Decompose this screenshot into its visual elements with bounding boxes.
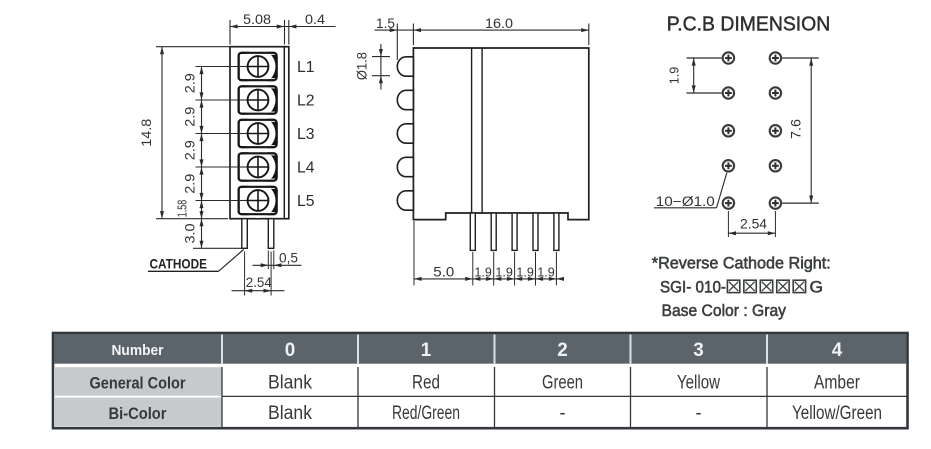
svg-text:10−Ø1.0: 10−Ø1.0 [656, 194, 715, 209]
svg-text:1.9: 1.9 [495, 265, 513, 279]
svg-text:P.C.B DIMENSION: P.C.B DIMENSION [667, 13, 831, 36]
svg-text:L2: L2 [297, 93, 315, 110]
svg-text:0.4: 0.4 [305, 12, 326, 27]
svg-text:3.0: 3.0 [183, 224, 198, 244]
svg-text:1.9: 1.9 [474, 265, 492, 279]
svg-text:0,5: 0,5 [279, 250, 298, 265]
svg-text:Number: Number [112, 342, 164, 359]
svg-text:SGI- 010-: SGI- 010- [660, 279, 726, 297]
svg-text:Green: Green [542, 373, 583, 394]
svg-text:2.9: 2.9 [183, 73, 198, 93]
svg-text:1.9: 1.9 [516, 265, 534, 279]
svg-text:Red/Green: Red/Green [392, 403, 460, 424]
svg-text:2.9: 2.9 [183, 140, 198, 160]
svg-text:1.9: 1.9 [668, 67, 682, 85]
svg-text:Blank: Blank [268, 403, 312, 424]
svg-text:Yellow/Green: Yellow/Green [792, 403, 882, 424]
svg-text:2.54: 2.54 [246, 275, 272, 290]
svg-text:1.5: 1.5 [376, 16, 395, 31]
svg-text:2.9: 2.9 [183, 107, 198, 127]
svg-text:Red: Red [412, 373, 440, 394]
svg-text:L5: L5 [297, 193, 315, 210]
svg-text:Amber: Amber [814, 373, 861, 394]
svg-text:2: 2 [557, 340, 568, 361]
svg-text:Base Color : Gray: Base Color : Gray [662, 302, 787, 320]
svg-text:5.08: 5.08 [243, 12, 271, 27]
svg-text:7.6: 7.6 [788, 119, 803, 139]
svg-text:1.9: 1.9 [537, 265, 555, 279]
svg-text:2.54: 2.54 [740, 217, 767, 232]
svg-text:G: G [810, 279, 824, 297]
svg-text:CATHODE: CATHODE [150, 257, 208, 272]
svg-text:4: 4 [832, 340, 843, 361]
svg-text:1: 1 [421, 340, 432, 361]
svg-text:5.0: 5.0 [433, 264, 454, 279]
svg-text:2.9: 2.9 [183, 174, 198, 194]
svg-text:Bi-Color: Bi-Color [109, 404, 167, 423]
svg-text:Blank: Blank [268, 373, 312, 394]
svg-text:L3: L3 [297, 126, 315, 143]
svg-text:Ø1.8: Ø1.8 [355, 52, 370, 80]
svg-text:-: - [560, 403, 566, 424]
svg-text:L4: L4 [297, 160, 315, 177]
svg-text:-: - [696, 403, 702, 424]
svg-text:*Reverse Cathode Right:: *Reverse Cathode Right: [652, 255, 831, 273]
svg-text:0: 0 [285, 340, 296, 361]
svg-text:14.8: 14.8 [139, 119, 154, 147]
svg-text:General Color: General Color [90, 374, 186, 393]
svg-text:L1: L1 [297, 59, 315, 76]
svg-text:16.0: 16.0 [485, 16, 513, 31]
svg-text:1.58: 1.58 [176, 200, 190, 218]
svg-text:3: 3 [693, 340, 704, 361]
svg-text:Yellow: Yellow [677, 373, 720, 394]
